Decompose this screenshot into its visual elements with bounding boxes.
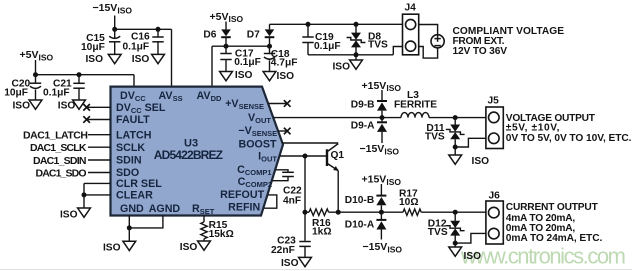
svg-text:LATCH: LATCH [116,129,151,141]
svg-text:D7: D7 [247,30,260,41]
wire CLR SEL stub [84,182,111,184]
svg-text:−15VISO: −15VISO [363,241,403,254]
svg-text:ISO: ISO [58,101,76,112]
wire top rail to J4 [270,23,403,25]
ground ISO (C21) [58,100,86,112]
svg-text:D6: D6 [203,30,216,41]
svg-text:D10-A: D10-A [345,219,375,230]
node junction [77,72,82,77]
ground ISO (C18) [263,71,294,82]
wire J4 to source top [419,25,438,35]
capacitor C17 [220,46,261,71]
node junction [33,72,38,77]
node junction [127,225,132,230]
net -15V_ISO label [93,2,133,15]
wire D8 top stub [355,24,357,33]
wire IOUT line left segment [305,211,309,213]
svg-text:AGND: AGND [149,203,181,215]
resistor R17 [399,188,421,215]
svg-text:ISO: ISO [103,242,121,253]
svg-text:ISO: ISO [85,54,103,65]
svg-text:TVS: TVS [425,132,445,143]
text voltage output note [506,113,632,144]
svg-text:10Ω: 10Ω [399,197,419,208]
ground ISO (C16) [132,54,165,65]
capacitor C20 [4,75,41,100]
wire R15 to ground [203,239,205,241]
svg-text:CLEAR: CLEAR [116,190,153,202]
node junction [306,22,311,27]
net +5V_ISO label (left) [20,49,54,62]
net +15V_ISO label (D9) [362,80,402,93]
svg-text:ISO: ISO [12,101,30,112]
svg-text:Q1: Q1 [331,150,345,161]
ground ISO (GND) [103,241,136,253]
svg-text:DAC1_SDO: DAC1_SDO [36,167,87,179]
wire AVDD drop [211,46,213,87]
wire AVSS drop [171,29,173,87]
svg-text:GND: GND [120,203,144,215]
diode D9-B [351,100,387,111]
wire D10-B to line [380,205,382,212]
wire D6 to rail [225,37,227,46]
svg-text:J4: J4 [405,2,417,13]
svg-text:www.cntronics.com: www.cntronics.com [460,244,626,269]
wire bottom rail C19 to J4 riser [308,54,393,56]
connector J6 [486,191,503,244]
wire SDIN [88,159,111,161]
svg-text:0.1μF: 0.1μF [43,88,70,99]
node junction [156,27,161,32]
wire D9-B to VOUT line [381,111,383,118]
wire IOUT to Q1 base [280,155,327,157]
ground ISO (CLEAR) [60,208,90,221]
op-amp U3 AD5422BREZ block [111,87,284,216]
svg-text:ISO: ISO [464,251,482,262]
node junction [303,210,308,215]
connector J5 [486,96,503,149]
wire D8 bottom stub [355,47,357,60]
svg-text:ISO: ISO [180,242,198,253]
wire +5V rail [36,74,135,76]
bottom edge artifact line [0,269,632,270]
svg-text:4mA TO 20mA,: 4mA TO 20mA, [506,213,576,224]
node junction [379,210,384,215]
wire GND stub [128,216,130,228]
wire SDO [88,172,111,174]
svg-text:−15VISO: −15VISO [360,143,400,156]
svg-text:SCLK: SCLK [116,142,145,154]
node junction [453,115,458,120]
voltage source V1 [431,35,444,48]
svg-text:DAC1_SCLK: DAC1_SCLK [30,142,87,154]
svg-text:ISO: ISO [132,54,150,65]
wire CLEAR stub [84,194,111,196]
node junction [303,154,308,159]
svg-text:15kΩ: 15kΩ [209,229,234,240]
wire D10 to R17 [381,211,403,213]
net -15V_ISO label (D9) [360,143,400,156]
ground ISO (D11) [449,155,489,167]
svg-text:0.1μF: 0.1μF [123,41,150,52]
wire D11 bottom stub [454,139,456,155]
svg-text:+5VISO: +5VISO [20,49,54,62]
wire REFOUT to REFIN loop [264,195,277,208]
node junction [380,115,385,120]
svg-text:1kΩ: 1kΩ [312,226,332,237]
resistor R16 [309,209,332,238]
svg-text:REFOUT: REFOUT [220,189,264,201]
svg-text:D9-A: D9-A [351,120,375,131]
wire LATCH [88,134,111,136]
wire AGND stub [129,216,163,228]
wire +5V to D6 [225,22,227,30]
svg-text:FERRITE: FERRITE [394,100,437,111]
wire +5V vertical [35,60,37,75]
text current output note [506,202,603,244]
svg-text:SDIN: SDIN [116,155,142,167]
node junction [224,44,229,49]
capacitor C22 [272,170,302,207]
svg-text:DAC1_LATCH: DAC1_LATCH [23,130,88,142]
svg-text:CURRENT OUTPUT: CURRENT OUTPUT [506,202,599,213]
svg-text:10μF: 10μF [81,42,105,53]
svg-text:10μF: 10μF [4,88,28,99]
capacitor C23 [271,236,311,258]
node junction [453,210,458,215]
wire to ground [128,228,130,241]
svg-text:±5V, ±10V,: ±5V, ±10V, [506,122,560,133]
diode D7 [247,29,275,40]
wire R17 to J6 [421,211,486,213]
ground ISO (C23) [281,257,311,268]
svg-text:12V TO 36V: 12V TO 36V [453,46,508,57]
svg-text:J6: J6 [489,191,501,202]
svg-text:ISO: ISO [472,156,490,167]
net +15V_ISO label (D10) [362,174,402,187]
svg-text:ISO: ISO [60,210,78,221]
ground ISO (C17) [220,70,253,81]
svg-text:BOOST: BOOST [238,138,276,150]
wire VOUT line after L3 [429,117,486,119]
svg-text:D10-B: D10-B [345,195,374,206]
net -15V_ISO label (D10) [363,241,403,254]
svg-text:FAULT: FAULT [116,114,150,126]
svg-text:TVS: TVS [368,40,388,51]
diode D10-A [345,219,387,230]
ground ISO (R15) [180,241,211,253]
wire D10-A to -15V [380,230,382,240]
wire D12 to J6 lower pin [455,233,486,243]
wire DVCC drop [133,75,135,87]
wire Q1 emitter down [337,171,339,213]
wire VOUT to D9-A [381,118,383,123]
svg-text:TVS: TVS [428,227,448,238]
svg-text:REFIN: REFIN [228,201,260,213]
wire D7 top stub [269,24,271,29]
svg-text:0V TO 5V, 0V TO 10V, ETC.: 0V TO 5V, 0V TO 10V, ETC. [506,133,632,144]
wire R16 to D10 [329,211,382,213]
transistor Q1 [327,144,344,171]
wire +15V to D9-B [381,90,383,101]
svg-text:ISO: ISO [235,70,253,81]
node junction [453,145,458,150]
svg-text:AD5422BREZ: AD5422BREZ [154,148,223,162]
no-connect X DVCC SEL [87,106,111,108]
wire BOOST to Q1 [282,142,338,144]
wire CLR vertical [83,183,85,208]
wire D7 to rail [269,37,271,46]
wire -15V vertical [114,16,116,30]
svg-text:4.7μF: 4.7μF [271,58,298,69]
node junction [453,241,458,246]
svg-text:D9-B: D9-B [351,100,375,111]
diode D10-B [345,195,387,206]
svg-text:ISO: ISO [332,61,350,72]
wire VOUT line [273,117,401,119]
wire D12 top stub [454,212,456,221]
capacitor C15 [81,29,120,54]
node junction [336,210,341,215]
wire source bottom to J4 [419,47,438,59]
svg-text:J5: J5 [488,96,500,107]
ground ISO (C20) [12,100,41,112]
wire SCLK [88,146,111,148]
capacitor C16 [123,29,164,54]
wire RSET stub [203,216,205,223]
no-connect X -VSENSE [278,130,287,132]
wire +15V to D10-B [380,184,382,196]
ground ISO (C15) [85,54,121,65]
svg-text:ISO: ISO [281,258,299,269]
svg-text:DAC1_SDIN: DAC1_SDIN [33,155,87,167]
inductor L3 FERRITE [394,90,437,118]
TVS diode D12 [428,218,465,238]
svg-text:0.1μF: 0.1μF [314,41,341,52]
svg-text:DVCC SEL: DVCC SEL [116,102,166,115]
wire line to D10-A [380,212,382,220]
diode D9-A [351,120,387,132]
wire AVDD rail [212,45,270,47]
TVS diode D11 [425,123,465,143]
no-connect X +VSENSE [268,103,287,105]
node junction [82,192,87,197]
wire J4 riser [393,47,402,55]
svg-text:4nF: 4nF [283,195,301,206]
resistor R15 [201,220,234,240]
TVS diode D8 [347,31,388,50]
wire -15V rail [115,28,172,30]
svg-text:ISO: ISO [277,71,295,82]
connector J4 [403,2,419,55]
wire D11 top stub [454,118,456,125]
diode D6 [203,29,230,40]
node junction [267,44,272,49]
svg-text:CLR SEL: CLR SEL [116,178,162,190]
svg-text:0mA TO 24mA, ETC.: 0mA TO 24mA, ETC. [506,233,603,244]
svg-text:0.1μF: 0.1μF [234,57,261,68]
node junction [354,52,359,57]
wire IOUT vertical [304,156,306,241]
net +5V_ISO label (top middle) [210,11,244,24]
ground ISO (D12) [449,247,481,262]
wire D9-A to -15V [381,132,383,143]
node junction [354,22,359,27]
wire D11 to J5 lower pin [455,138,486,147]
no-connect X FAULT [87,119,111,121]
capacitor C21 [43,75,85,100]
text compliant voltage note [453,26,565,57]
svg-text:22nF: 22nF [271,245,295,256]
ground ISO (D8) [332,60,362,72]
capacitor C19 [302,24,340,55]
capacitor C18 [264,46,298,71]
node junction [112,27,117,32]
svg-text:−15VISO: −15VISO [93,2,133,15]
wire D12 bottom stub [454,236,456,248]
